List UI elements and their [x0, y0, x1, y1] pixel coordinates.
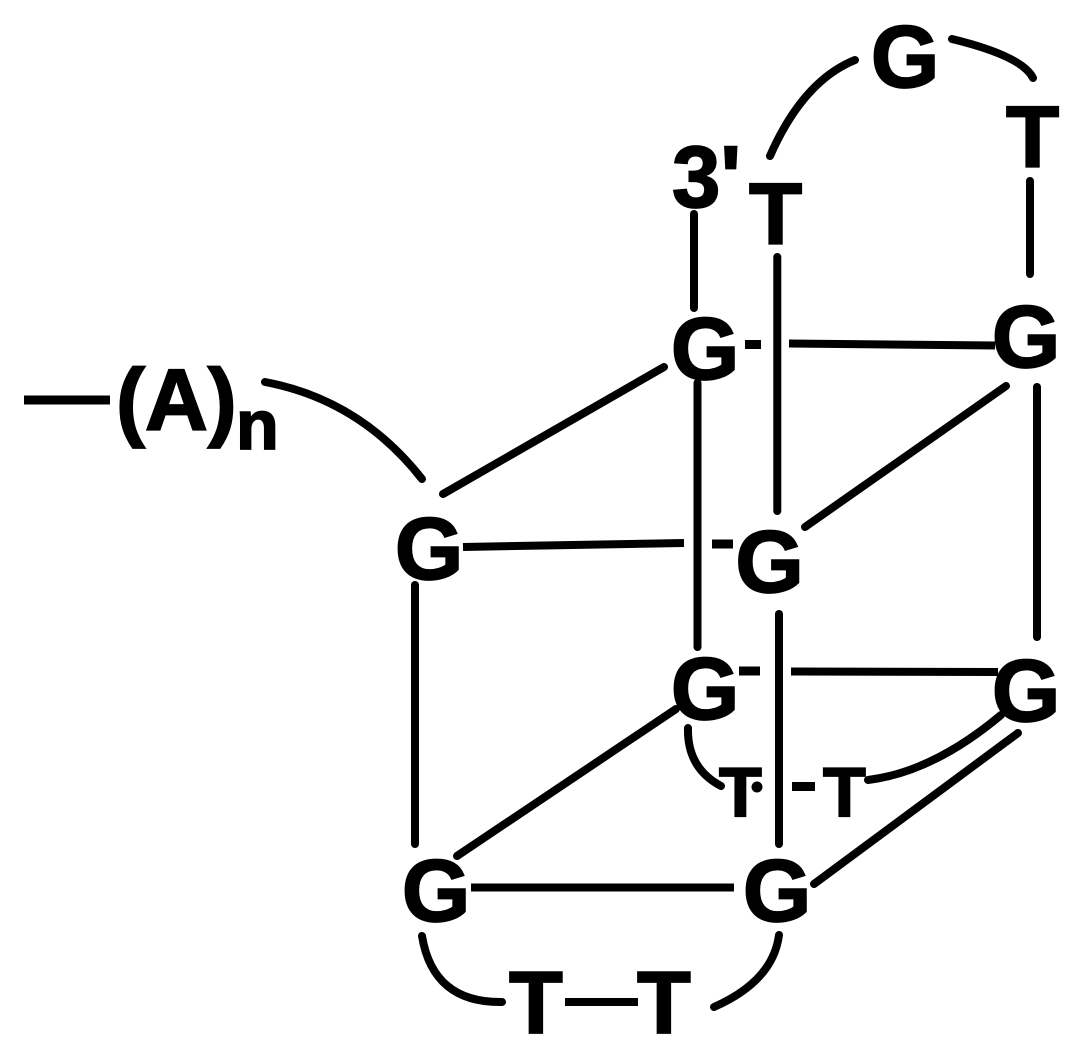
wire: top loop arc right of G — [952, 39, 1033, 78]
wire: H-bond dash right of G tetrad1 back-left — [745, 340, 761, 349]
svg-text:T: T — [509, 953, 563, 1052]
svg-text:n: n — [236, 386, 279, 464]
wire: vertical 3' to G tetrad1 back-left — [690, 214, 698, 308]
svg-text:T: T — [637, 953, 691, 1052]
wire: bottom T-T bond — [565, 998, 638, 1006]
wire: horizontal G tetrad2 front-left to front-right — [471, 884, 734, 892]
wire: vertical G tetrad1 front-left to G tetrad2 front-left — [411, 585, 419, 844]
svg-text:T: T — [749, 166, 802, 263]
svg-text:T: T — [1006, 89, 1059, 186]
wire: diagonal G tetrad1 front-right to back-right — [805, 386, 1006, 527]
wire: vertical T top-right to G tetrad1 back-right — [1026, 181, 1034, 274]
wire: diagonal G tetrad1 front-left to back-left — [443, 367, 664, 494]
wire: H-bond dash right of G tetrad2 back-left — [739, 667, 760, 676]
wire: top loop arc left of G — [770, 60, 855, 156]
wire: H-bond dash before loop T right — [792, 782, 815, 791]
wire: vertical G tetrad1 back-right to G tetrad2 back-right — [1033, 387, 1041, 637]
svg-text:G: G — [992, 641, 1060, 740]
wire: diagonal G tetrad2 front-left to back-left — [457, 709, 676, 856]
wire: arc loop T right to G tetrad2 back-right — [868, 715, 1001, 780]
wire: H-bond dash left of G tetrad1 front-right — [712, 540, 733, 549]
svg-text:G: G — [395, 499, 463, 598]
wire: vertical G tetrad1 front-right to G tetrad2 front-right — [775, 614, 783, 844]
wire: horizontal G tetrad1 front-left to front-right — [463, 543, 684, 547]
wire: small arc G tetrad2 back-left to loop T left — [688, 728, 721, 786]
wire: horizontal G tetrad2 back-left to back-right — [791, 668, 998, 677]
svg-text:G: G — [671, 299, 739, 398]
wire: bottom loop arc right — [714, 935, 779, 1007]
svg-text:G: G — [671, 639, 739, 738]
svg-text:G: G — [735, 512, 803, 611]
wire: 5' leading dash — [24, 396, 110, 405]
svg-text:G: G — [402, 841, 470, 940]
wire: H-bond dot after loop T left — [752, 782, 763, 793]
svg-text:G: G — [871, 7, 939, 106]
svg-text:G: G — [743, 841, 811, 940]
wire: vertical G tetrad1 back-left to G tetrad2 back-left — [694, 383, 702, 647]
wire: diagonal G tetrad2 front-right to back-right — [814, 733, 1018, 884]
wire: loop arc from (A)n to G front-left — [265, 382, 422, 479]
svg-text:T: T — [719, 753, 762, 831]
svg-text:T: T — [823, 753, 866, 831]
svg-text:3': 3' — [672, 129, 741, 226]
wire: vertical T top-mid down to G tetrad1 front-right — [773, 257, 781, 511]
wire: horizontal G tetrad1 back-left to back-right — [789, 344, 995, 346]
svg-text:(A): (A) — [116, 352, 237, 449]
wire: bottom loop arc left — [422, 936, 502, 1002]
svg-text:G: G — [992, 287, 1060, 386]
